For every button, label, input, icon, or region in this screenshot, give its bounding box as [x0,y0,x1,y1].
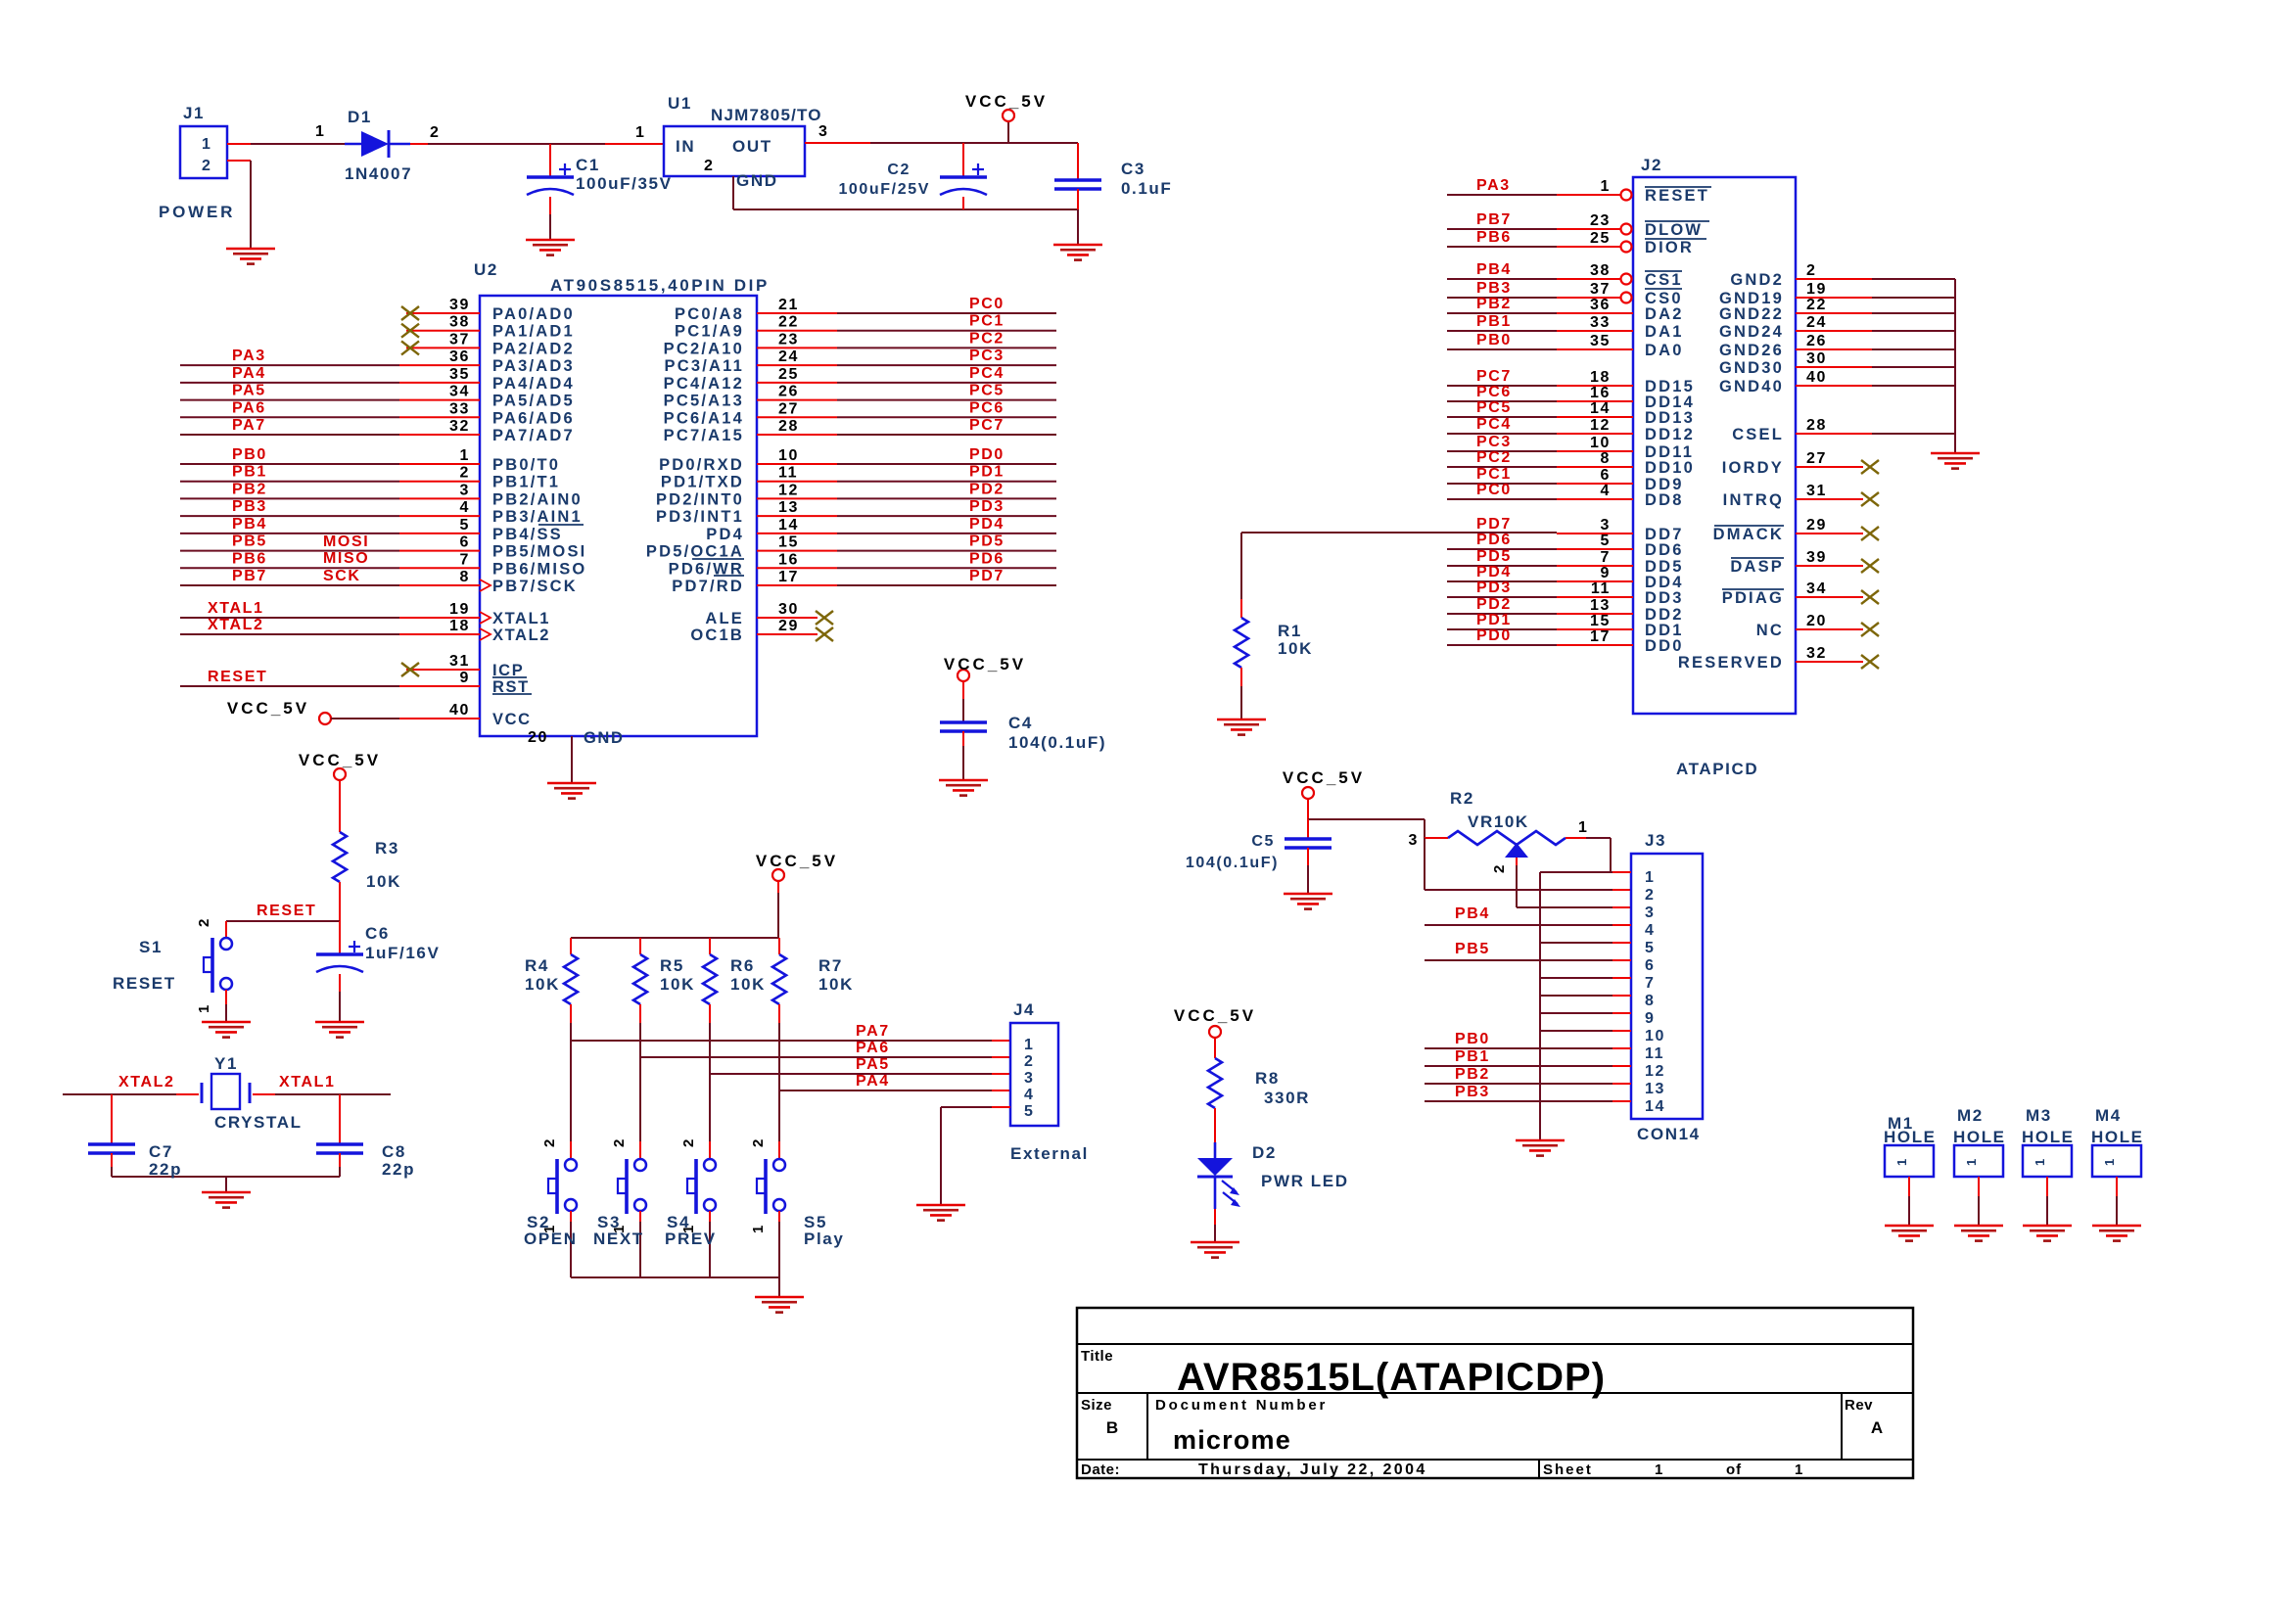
svg-text:PC2/A10: PC2/A10 [664,340,744,357]
svg-text:DIOR: DIOR [1645,239,1694,256]
svg-text:27: 27 [778,400,799,417]
svg-text:GND22: GND22 [1719,305,1784,323]
svg-text:37: 37 [449,331,470,348]
svg-text:PB2: PB2 [1476,296,1512,312]
svg-text:330R: 330R [1264,1089,1310,1107]
svg-text:14: 14 [1645,1098,1665,1115]
svg-text:GND: GND [736,171,778,190]
svg-text:PB5: PB5 [232,534,267,550]
svg-text:2: 2 [541,1137,558,1147]
svg-text:2: 2 [1491,863,1508,873]
svg-text:DD10: DD10 [1645,459,1695,477]
svg-text:PB1/T1: PB1/T1 [492,474,560,491]
svg-text:40: 40 [1806,369,1827,386]
svg-text:PB6/MISO: PB6/MISO [492,560,586,578]
svg-text:35: 35 [1590,333,1611,349]
svg-text:VCC_5V: VCC_5V [299,751,381,769]
svg-text:XTAL1: XTAL1 [208,600,263,617]
svg-text:DD6: DD6 [1645,541,1684,559]
svg-text:PA3/AD3: PA3/AD3 [492,357,575,375]
svg-text:PB3: PB3 [1476,280,1512,297]
svg-text:PC0: PC0 [1476,482,1512,498]
svg-text:C2: C2 [887,162,911,178]
svg-text:PC7/A15: PC7/A15 [664,427,744,444]
svg-text:20: 20 [528,729,548,746]
svg-text:C7: C7 [149,1142,173,1161]
svg-text:R3: R3 [375,839,399,858]
svg-text:8: 8 [1645,993,1656,1009]
svg-text:Document Number: Document Number [1155,1397,1328,1414]
svg-text:2: 2 [1806,262,1817,279]
svg-text:12: 12 [1645,1063,1665,1080]
svg-text:POWER: POWER [159,203,235,221]
svg-text:1: 1 [1655,1462,1664,1478]
svg-text:1: 1 [315,123,326,140]
svg-text:PD0: PD0 [969,446,1005,463]
svg-text:D2: D2 [1252,1143,1277,1162]
svg-text:XTAL2: XTAL2 [208,617,263,633]
svg-text:RESERVED: RESERVED [1678,654,1784,672]
svg-text:7: 7 [460,551,471,568]
svg-text:OUT: OUT [732,137,772,156]
svg-text:PA7/AD7: PA7/AD7 [492,427,575,444]
svg-text:MISO: MISO [323,550,369,567]
svg-text:10K: 10K [660,975,695,994]
svg-text:PC1/A9: PC1/A9 [675,323,744,341]
svg-text:23: 23 [1590,212,1611,229]
svg-text:PC4: PC4 [1476,416,1512,433]
svg-text:1: 1 [541,1224,558,1233]
svg-text:1: 1 [1578,819,1589,836]
svg-text:VCC_5V: VCC_5V [1174,1006,1256,1025]
svg-text:ALE: ALE [705,610,744,627]
svg-text:12: 12 [778,482,799,498]
svg-text:32: 32 [1806,645,1827,662]
svg-text:38: 38 [1590,262,1611,279]
svg-text:11: 11 [1591,580,1611,597]
svg-text:C8: C8 [382,1142,406,1161]
svg-text:PA3: PA3 [1476,177,1511,194]
svg-text:PD5/OC1A: PD5/OC1A [646,543,744,561]
svg-text:10: 10 [1590,435,1611,451]
svg-text:PB2: PB2 [232,481,267,497]
svg-text:PA1/AD1: PA1/AD1 [492,323,575,341]
svg-text:PB3: PB3 [232,498,267,515]
svg-text:PB4: PB4 [1455,905,1490,922]
svg-text:PB7/SCK: PB7/SCK [492,578,578,595]
svg-text:10K: 10K [525,975,560,994]
svg-text:DD12: DD12 [1645,426,1695,443]
svg-text:14: 14 [1590,400,1611,417]
svg-text:Play: Play [804,1230,844,1248]
svg-text:29: 29 [778,618,799,634]
svg-text:4: 4 [1024,1087,1035,1103]
svg-text:PB6: PB6 [232,550,267,567]
svg-text:17: 17 [778,569,799,585]
svg-text:1: 1 [635,124,646,141]
svg-text:PD2/INT0: PD2/INT0 [656,490,744,508]
svg-text:PC5: PC5 [969,383,1005,399]
svg-text:5: 5 [1601,533,1612,549]
svg-text:PD4: PD4 [706,526,744,543]
svg-text:HOLE: HOLE [1884,1128,1937,1146]
svg-text:PA4/AD4: PA4/AD4 [492,375,575,393]
svg-text:of: of [1726,1462,1742,1478]
svg-text:2: 2 [750,1137,767,1147]
svg-text:1: 1 [1795,1462,1804,1478]
svg-text:3: 3 [1601,517,1612,534]
svg-text:A: A [1871,1418,1883,1437]
svg-text:31: 31 [449,653,470,670]
svg-text:J1: J1 [183,104,205,122]
svg-text:PD1: PD1 [1476,612,1512,628]
svg-text:R6: R6 [730,956,755,975]
svg-text:10: 10 [778,447,799,464]
svg-text:PC0: PC0 [969,296,1005,312]
svg-text:J2: J2 [1641,156,1662,174]
svg-text:22: 22 [778,314,799,331]
svg-text:PA3: PA3 [232,348,266,364]
svg-text:1: 1 [1894,1157,1909,1166]
svg-text:22p: 22p [149,1160,182,1179]
svg-text:J3: J3 [1645,831,1666,850]
svg-text:HOLE: HOLE [2091,1128,2144,1146]
svg-text:PD2: PD2 [969,481,1005,497]
svg-text:PC2: PC2 [1476,449,1512,466]
svg-text:PA2/AD2: PA2/AD2 [492,340,575,357]
svg-text:PB2: PB2 [1455,1066,1490,1083]
svg-text:PD5: PD5 [1476,548,1512,565]
svg-text:19: 19 [449,601,470,618]
svg-text:28: 28 [778,418,799,435]
svg-text:microme: microme [1173,1425,1291,1455]
svg-text:11: 11 [1645,1045,1664,1062]
svg-text:B: B [1106,1418,1118,1437]
svg-text:NC: NC [1756,622,1784,639]
svg-text:M2: M2 [1957,1106,1984,1125]
svg-text:PD1: PD1 [969,464,1005,481]
svg-text:VCC_5V: VCC_5V [1283,768,1365,787]
svg-text:M3: M3 [2026,1106,2052,1125]
svg-text:PB0: PB0 [232,446,267,463]
svg-text:C3: C3 [1121,160,1145,178]
svg-text:19: 19 [1806,281,1827,298]
svg-text:PB7: PB7 [232,568,267,584]
svg-text:S1: S1 [139,938,163,956]
svg-text:21: 21 [778,297,799,313]
svg-text:C1: C1 [576,156,600,174]
svg-text:OC1B: OC1B [690,626,744,644]
svg-text:PC3: PC3 [969,348,1005,364]
svg-text:5: 5 [1024,1103,1035,1120]
svg-text:1: 1 [750,1224,767,1233]
svg-text:CS1: CS1 [1645,271,1683,289]
svg-text:10K: 10K [730,975,766,994]
svg-text:GND40: GND40 [1719,378,1784,395]
svg-text:0.1uF: 0.1uF [1121,179,1172,198]
svg-text:PA0/AD0: PA0/AD0 [492,305,575,323]
svg-text:R2: R2 [1450,789,1474,808]
svg-text:PC1: PC1 [1476,466,1512,483]
svg-text:RESET: RESET [208,669,267,685]
svg-text:VCC_5V: VCC_5V [944,655,1026,673]
svg-text:R1: R1 [1278,622,1302,640]
svg-text:37: 37 [1590,281,1611,298]
svg-text:PD4: PD4 [1476,564,1512,580]
svg-text:16: 16 [1590,385,1611,401]
svg-text:R5: R5 [660,956,684,975]
svg-text:PC6/A14: PC6/A14 [664,409,744,427]
svg-text:104(0.1uF): 104(0.1uF) [1008,733,1106,752]
svg-text:26: 26 [778,384,799,400]
svg-text:PD7/RD: PD7/RD [672,578,744,595]
svg-text:2: 2 [1645,887,1656,904]
svg-text:PC6: PC6 [1476,384,1512,400]
svg-text:PD6: PD6 [969,550,1005,567]
svg-text:6: 6 [1601,467,1612,484]
svg-text:1: 1 [196,1003,212,1013]
svg-text:2: 2 [196,917,212,927]
svg-text:ATAPICD: ATAPICD [1676,760,1758,778]
svg-text:13: 13 [778,499,799,516]
svg-text:PC0/A8: PC0/A8 [675,305,744,323]
svg-text:PA7: PA7 [856,1023,890,1040]
svg-text:1: 1 [1645,869,1656,886]
svg-text:10: 10 [1645,1028,1665,1044]
svg-text:9: 9 [460,670,471,686]
svg-text:PWR LED: PWR LED [1261,1172,1349,1190]
svg-text:10K: 10K [366,872,401,891]
svg-text:PC6: PC6 [969,399,1005,416]
svg-text:3: 3 [818,123,829,140]
svg-text:1: 1 [460,447,471,464]
svg-text:18: 18 [449,618,470,634]
svg-text:6: 6 [1645,957,1656,974]
svg-text:CRYSTAL: CRYSTAL [214,1113,303,1132]
svg-text:J4: J4 [1013,1000,1035,1019]
svg-text:GND24: GND24 [1719,323,1784,341]
svg-text:DD13: DD13 [1645,409,1695,427]
svg-text:PA4: PA4 [232,365,266,382]
svg-text:PC3: PC3 [1476,434,1512,450]
svg-text:22p: 22p [382,1160,415,1179]
svg-text:PC3/A11: PC3/A11 [665,357,744,375]
svg-text:1N4007: 1N4007 [345,164,412,183]
svg-text:External: External [1010,1144,1089,1163]
svg-text:PC4: PC4 [969,365,1005,382]
svg-text:PD4: PD4 [969,516,1005,533]
svg-text:2: 2 [460,465,471,482]
svg-text:PD6: PD6 [1476,532,1512,548]
svg-text:PA5: PA5 [232,383,266,399]
svg-text:100uF/25V: 100uF/25V [838,181,930,198]
svg-text:PA6: PA6 [856,1040,890,1056]
svg-text:26: 26 [1806,333,1827,349]
svg-text:12: 12 [1590,417,1611,434]
svg-text:U2: U2 [474,260,498,279]
svg-text:1: 1 [202,136,212,153]
svg-text:25: 25 [1590,230,1611,247]
svg-text:MOSI: MOSI [323,534,369,550]
svg-text:PB6: PB6 [1476,229,1512,246]
svg-text:13: 13 [1590,597,1611,614]
svg-text:PA5/AD5: PA5/AD5 [492,393,575,410]
svg-text:1: 1 [2033,1157,2047,1166]
svg-text:36: 36 [449,348,470,365]
svg-text:PB2/AIN0: PB2/AIN0 [492,490,583,508]
svg-text:24: 24 [1806,314,1827,331]
svg-text:Y1: Y1 [214,1054,238,1073]
svg-text:3: 3 [1024,1070,1035,1087]
svg-text:PA7: PA7 [232,417,266,434]
svg-text:XTAL2: XTAL2 [492,626,550,644]
svg-text:R4: R4 [525,956,549,975]
svg-text:30: 30 [1806,350,1827,367]
svg-text:DLOW: DLOW [1645,221,1703,239]
svg-text:RESET: RESET [257,903,316,919]
svg-text:DA2: DA2 [1645,305,1684,323]
svg-text:HOLE: HOLE [2022,1128,2075,1146]
svg-text:4: 4 [460,499,471,516]
svg-text:30: 30 [778,601,799,618]
svg-text:VCC_5V: VCC_5V [756,852,838,870]
svg-text:36: 36 [1590,297,1611,313]
svg-text:3: 3 [1645,905,1656,921]
svg-text:24: 24 [778,348,799,365]
svg-text:1uF/16V: 1uF/16V [365,944,440,962]
svg-text:Sheet: Sheet [1543,1462,1593,1478]
svg-text:PD0: PD0 [1476,627,1512,644]
svg-text:PB5: PB5 [1455,941,1490,957]
svg-text:CSEL: CSEL [1732,426,1784,443]
svg-text:HOLE: HOLE [1953,1128,2006,1146]
svg-text:INTRQ: INTRQ [1723,491,1784,509]
svg-text:2: 2 [611,1137,628,1147]
svg-text:DA1: DA1 [1645,323,1684,341]
svg-text:20: 20 [1806,613,1827,629]
svg-text:PD0/RXD: PD0/RXD [659,456,744,474]
svg-text:XTAL2: XTAL2 [118,1074,174,1090]
svg-text:14: 14 [778,517,799,534]
svg-text:Date:: Date: [1081,1462,1120,1478]
svg-text:34: 34 [449,384,470,400]
svg-text:33: 33 [1590,314,1611,331]
svg-text:3: 3 [1409,832,1420,849]
svg-text:GND26: GND26 [1719,342,1784,359]
svg-text:8: 8 [460,569,471,585]
svg-text:AVR8515L(ATAPICDP): AVR8515L(ATAPICDP) [1177,1356,1606,1399]
svg-text:PB1: PB1 [232,464,267,481]
svg-text:PD7: PD7 [1476,516,1512,533]
svg-text:DMACK: DMACK [1713,526,1784,543]
svg-text:31: 31 [1806,483,1827,499]
svg-text:PA6/AD6: PA6/AD6 [492,409,575,427]
svg-text:PC7: PC7 [969,417,1005,434]
svg-text:39: 39 [1806,549,1827,566]
svg-text:4: 4 [1645,922,1656,939]
svg-text:PC1: PC1 [969,313,1005,330]
svg-text:2: 2 [680,1137,697,1147]
svg-text:RESET: RESET [1645,187,1709,205]
svg-text:33: 33 [449,400,470,417]
svg-text:PB3/AIN1: PB3/AIN1 [492,508,583,526]
svg-text:28: 28 [1806,417,1827,434]
svg-text:NJM7805/TO: NJM7805/TO [711,106,822,124]
svg-text:1: 1 [2102,1157,2117,1166]
svg-text:PD7: PD7 [969,568,1005,584]
svg-text:GND30: GND30 [1719,359,1784,377]
svg-text:5: 5 [1645,940,1656,956]
svg-text:R7: R7 [818,956,843,975]
svg-text:PB1: PB1 [1476,313,1512,330]
svg-text:100uF/35V: 100uF/35V [576,174,673,193]
svg-text:22: 22 [1806,297,1827,313]
svg-text:9: 9 [1601,565,1612,581]
svg-text:RESET: RESET [113,974,176,993]
svg-text:VCC: VCC [492,711,532,728]
svg-text:PB5/MOSI: PB5/MOSI [492,543,586,561]
svg-text:3: 3 [460,482,471,498]
svg-text:9: 9 [1645,1010,1656,1027]
svg-text:IN: IN [676,137,695,156]
svg-text:R8: R8 [1255,1069,1280,1088]
svg-text:PD5: PD5 [969,534,1005,550]
svg-text:PB1: PB1 [1455,1048,1490,1065]
svg-text:DD8: DD8 [1645,491,1684,509]
svg-text:U1: U1 [668,94,692,113]
svg-text:D1: D1 [348,108,372,126]
svg-text:PB4: PB4 [232,516,267,533]
svg-text:DA0: DA0 [1645,342,1684,359]
svg-text:18: 18 [1590,369,1611,386]
svg-text:17: 17 [1590,628,1611,645]
svg-text:DD0: DD0 [1645,637,1684,655]
svg-text:PA6: PA6 [232,399,266,416]
svg-text:1: 1 [1024,1037,1035,1053]
svg-text:PB0: PB0 [1455,1031,1490,1047]
svg-text:Title: Title [1081,1348,1113,1365]
svg-text:35: 35 [449,366,470,383]
svg-text:8: 8 [1601,450,1612,467]
svg-text:PD1/TXD: PD1/TXD [661,474,744,491]
svg-text:C5: C5 [1251,833,1275,850]
svg-text:10K: 10K [818,975,854,994]
svg-text:PB4/SS: PB4/SS [492,526,563,543]
svg-text:1: 1 [680,1224,697,1233]
svg-text:Thursday, July 22, 2004: Thursday, July 22, 2004 [1198,1462,1427,1478]
svg-text:6: 6 [460,534,471,551]
svg-text:DD3: DD3 [1645,589,1684,607]
svg-text:PB7: PB7 [1476,211,1512,228]
svg-text:2: 2 [704,158,715,174]
svg-text:PB4: PB4 [1476,261,1512,278]
svg-text:PC5/A13: PC5/A13 [664,393,744,410]
svg-text:PDIAG: PDIAG [1722,589,1784,607]
svg-text:1: 1 [1601,178,1612,195]
svg-text:PA4: PA4 [856,1073,890,1090]
svg-text:1: 1 [1964,1157,1979,1166]
svg-text:10K: 10K [1278,639,1313,658]
svg-text:IORDY: IORDY [1722,459,1784,477]
svg-text:15: 15 [1590,613,1611,629]
svg-text:C4: C4 [1008,714,1033,732]
svg-text:PB0/T0: PB0/T0 [492,456,560,474]
svg-text:32: 32 [449,418,470,435]
svg-text:1: 1 [611,1224,628,1233]
svg-text:15: 15 [778,534,799,551]
svg-text:PA5: PA5 [856,1056,890,1073]
svg-text:SCK: SCK [323,568,361,584]
